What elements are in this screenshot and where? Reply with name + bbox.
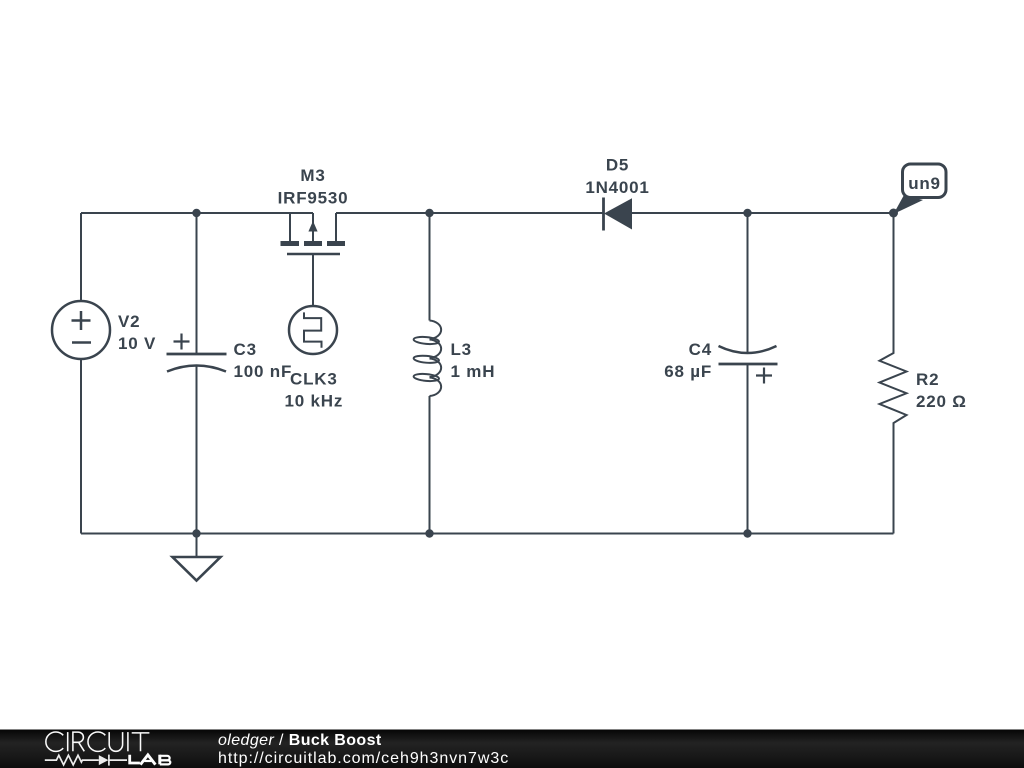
svg-text:1 mH: 1 mH — [451, 362, 496, 381]
svg-text:10 V: 10 V — [118, 334, 156, 353]
svg-text:C3: C3 — [234, 340, 257, 359]
svg-text:oledger / Buck Boost: oledger / Buck Boost — [218, 732, 382, 749]
svg-text:M3: M3 — [300, 166, 325, 185]
svg-text:220 Ω: 220 Ω — [916, 392, 967, 411]
svg-text:L3: L3 — [451, 340, 472, 359]
svg-text:V2: V2 — [118, 312, 140, 331]
svg-text:un9: un9 — [908, 174, 941, 193]
svg-text:http://circuitlab.com/ceh9h3nv: http://circuitlab.com/ceh9h3nvn7w3c — [218, 750, 509, 767]
svg-text:10 kHz: 10 kHz — [284, 392, 343, 411]
svg-text:100 nF: 100 nF — [234, 362, 293, 381]
svg-text:68 µF: 68 µF — [664, 362, 712, 381]
svg-text:IRF9530: IRF9530 — [278, 189, 349, 208]
svg-text:C4: C4 — [689, 340, 712, 359]
svg-text:1N4001: 1N4001 — [585, 178, 649, 197]
svg-text:R2: R2 — [916, 370, 939, 389]
svg-text:CLK3: CLK3 — [290, 370, 338, 389]
svg-text:D5: D5 — [606, 156, 629, 175]
